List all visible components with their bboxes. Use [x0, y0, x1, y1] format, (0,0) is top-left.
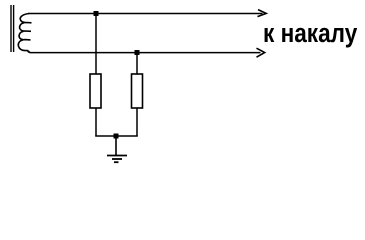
arrow head top wire — [258, 10, 267, 17]
transformer core line 1 — [10, 5, 12, 52]
node: junction dot on bottom wire — [135, 50, 140, 55]
wire: R2 bottom lead — [136, 108, 138, 137]
wire: bottom horizontal to arrow — [28, 51, 261, 53]
wire: ground stem — [115, 136, 117, 156]
wire: vertical from bottom wire to R2 — [136, 53, 138, 75]
wire: top horizontal to arrow — [28, 13, 263, 15]
ground bar 2 — [112, 158, 122, 160]
wire: bottom connecting bar — [95, 135, 137, 137]
node: junction dot on bottom bar — [114, 134, 119, 139]
transformer core line 2 — [13, 5, 15, 52]
transformer winding T1 — [18, 14, 31, 53]
node: junction dot on top wire — [94, 11, 99, 16]
label: к накалу — [263, 18, 357, 49]
arrow head bottom wire — [257, 48, 265, 57]
ground bar 1 — [107, 155, 127, 157]
wire: R1 bottom lead — [95, 108, 97, 137]
ground bar 3 — [114, 161, 119, 163]
resistor R1 — [90, 74, 101, 108]
resistor R2 — [132, 74, 143, 108]
wire: vertical from top wire to R1 (crosses bottom wire, no connection) — [95, 14, 97, 75]
